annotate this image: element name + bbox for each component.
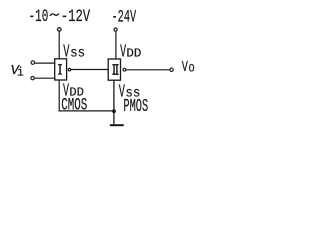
output terminal T3 [170,68,173,71]
svg-text:DD: DD [126,48,141,61]
wire bottom horizontal to junction [59,110,114,112]
label Vss (U2 bottom pin) [119,83,141,103]
wire U1 output to U2 input [71,69,108,71]
input terminal B [31,76,34,79]
svg-text:V: V [182,59,188,76]
label Vi [11,63,25,80]
svg-text:o: o [188,60,194,76]
ground [110,124,124,126]
label II inside U2 [112,64,118,75]
svg-text:-12V: -12V [61,7,91,27]
wire U2 output to output terminal [126,69,170,71]
svg-text:PMOS: PMOS [123,97,148,117]
label Vo [182,59,195,76]
svg-text:CMOS: CMOS [61,96,87,116]
inverter block U2 (PMOS), box II [108,59,120,80]
svg-text:ss: ss [70,47,85,62]
label VDD (U2 top pin) [120,43,141,63]
wire T2 to U2 top pin [115,31,117,59]
svg-text:-10: -10 [29,7,49,27]
label I inside U1 [58,64,62,75]
junction dot [112,109,116,113]
input terminal A [31,61,35,65]
wire input B to U1 [34,77,55,79]
terminal T1 (-10~-12V supply) [58,28,62,32]
svg-text:i: i [17,66,24,79]
tilde of supply range [50,14,59,16]
inverter bubble on U1 output [68,68,71,71]
inverter block U1 (CMOS), box I [55,59,67,80]
wire U2 bottom pin down to ground [113,80,115,124]
terminal T2 (-24V supply) [114,28,117,31]
svg-text:-24V: -24V [112,7,137,27]
inverter bubble on U2 output [123,68,126,71]
wire input A to U1 [35,62,56,64]
wire U1 bottom pin down [58,80,60,112]
wire T1 to U1 top pin [58,31,60,59]
label VDD (U1 bottom pin) [63,82,84,102]
label Vss (U1 top pin) [63,43,85,63]
